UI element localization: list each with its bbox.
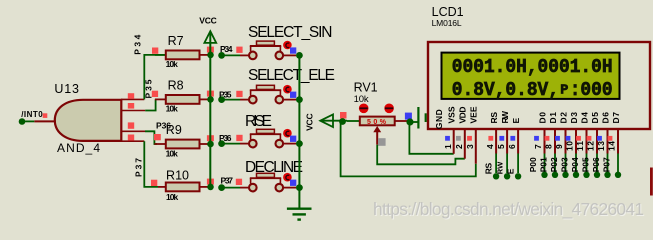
svg-text:P: P [560, 84, 568, 99]
LCD LCD1 frame [428, 42, 650, 129]
resistor R8 [155, 95, 211, 104]
svg-text:10k: 10k [166, 59, 178, 69]
pin marker blue square button1 [290, 47, 296, 53]
wire P35 to button SELECT_ELE [222, 99, 240, 101]
resistor R7 [155, 51, 211, 60]
pin 5 marker blue square [499, 136, 504, 141]
component edge (off-screen, right) [650, 168, 653, 196]
LCD pin 3 stub [475, 130, 477, 164]
svg-text:https://blog.csdn.net/weixin_4: https://blog.csdn.net/weixin_47626041 [373, 199, 644, 219]
LCD pin 13 stub (D6) [604, 130, 610, 178]
pin marker red square RV1 left [340, 112, 347, 119]
svg-text:10k: 10k [166, 104, 178, 114]
wire to /INT0 [21, 120, 34, 122]
pin 13 marker square [597, 136, 602, 141]
pin marker red square R8 left [152, 91, 158, 97]
svg-text:12: 12 [586, 141, 596, 151]
svg-text:E: E [506, 168, 516, 174]
pin marker red square R10 left [151, 180, 157, 186]
pushbutton RISE [240, 129, 296, 148]
junction RV1 right / GND [406, 118, 413, 125]
svg-text:10k: 10k [166, 192, 178, 202]
pin marker red square input 1 [128, 93, 134, 99]
pin 3 marker red square [467, 136, 472, 141]
LCD pin 10 stub (D3) [573, 130, 579, 178]
LCD pin 8 stub (D1) [552, 130, 558, 178]
svg-text:P34: P34 [132, 34, 142, 54]
svg-text:RS: RS [489, 112, 499, 124]
pin 7 marker square [534, 136, 539, 141]
junction rail/button2 [296, 96, 303, 103]
svg-text:P05: P05 [581, 157, 591, 172]
junction VCC rail / R8 [207, 96, 214, 103]
svg-text:3: 3 [465, 144, 475, 149]
svg-text:/INT0: /INT0 [21, 110, 43, 119]
LCD pin 2 stub [464, 130, 466, 159]
svg-text:D1: D1 [548, 112, 558, 124]
LCD pin 5 stub (RW) [504, 130, 510, 180]
svg-text:11: 11 [575, 141, 585, 151]
node P34 wire-end dot [218, 52, 225, 59]
wire GND net to LCD VSS (pin 1) [409, 122, 453, 154]
svg-text:P36: P36 [219, 133, 232, 143]
pin 9 marker square [555, 136, 560, 141]
svg-text:10k: 10k [166, 148, 178, 158]
svg-text:R9: R9 [166, 123, 182, 137]
wire input3 jog to R9 [145, 131, 157, 144]
pin stub U13 input 2 [121, 110, 145, 112]
svg-text:RS: RS [484, 162, 494, 174]
pin 2 marker gray square [456, 136, 461, 141]
power VCC terminal (top) [204, 31, 216, 187]
svg-text:D3: D3 [569, 112, 579, 124]
pin marker red square button2 left [236, 91, 242, 97]
junction VCC rail / R7 [207, 52, 214, 59]
wire ground rail (right of buttons) [298, 55, 300, 207]
svg-text:VCC: VCC [305, 113, 315, 131]
pin 14 marker square [608, 136, 613, 141]
svg-text:P00: P00 [528, 157, 538, 172]
marker gray square RV1 wiper [378, 138, 386, 146]
pin marker red square input 3 [128, 122, 134, 128]
svg-text:50%: 50% [367, 119, 387, 126]
svg-text:RW: RW [500, 110, 510, 123]
svg-text:D5: D5 [590, 112, 600, 124]
svg-text:P06: P06 [591, 157, 601, 172]
svg-text:8: 8 [544, 144, 554, 149]
pin 11 marker square [576, 136, 581, 141]
resistor R10 [158, 183, 211, 192]
LCD pin 1 stub [453, 130, 455, 154]
svg-text::000: :000 [570, 79, 613, 101]
pin marker blue square button3 [290, 136, 296, 142]
junction rail/button4 [296, 184, 303, 191]
svg-text:0001.0H,0001.0H: 0001.0H,0001.0H [452, 56, 613, 78]
pin marker blue square RV1 right [405, 113, 412, 120]
pin marker red square button1 left [236, 47, 242, 53]
pin 8 marker square [545, 136, 550, 141]
svg-text:9: 9 [554, 144, 564, 149]
svg-text:VDD: VDD [458, 107, 468, 124]
svg-text:SELECT_SIN: SELECT_SIN [248, 24, 333, 41]
svg-text:P37: P37 [133, 158, 143, 177]
svg-text:D0: D0 [538, 112, 548, 124]
svg-text:5: 5 [496, 144, 506, 149]
LCD pin 12 stub (D5) [594, 130, 600, 178]
svg-text:0.8V,0.8V,: 0.8V,0.8V, [452, 79, 559, 101]
pin marker blue square button4 [290, 180, 296, 186]
svg-text:RV1: RV1 [354, 81, 378, 95]
svg-text:VEE: VEE [469, 106, 479, 123]
svg-text:P34: P34 [220, 44, 233, 54]
svg-text:RW: RW [496, 161, 505, 174]
svg-text:D4: D4 [580, 112, 590, 124]
pin stub U13 input 4 [121, 140, 144, 142]
pin marker red square /INT0 [43, 113, 48, 118]
svg-text:VSS: VSS [447, 106, 457, 123]
svg-text:6: 6 [507, 144, 517, 149]
power VCC terminal (left-pointing, near RV1) [320, 114, 347, 127]
pin marker blue square button2 [290, 92, 296, 98]
svg-text:P37: P37 [221, 175, 234, 185]
pin 1 marker blue square [445, 136, 450, 141]
wire input2 jog to R8 [145, 99, 155, 110]
LCD pin 14 stub (D7) [615, 130, 621, 178]
resistor R9 [154, 140, 211, 149]
pin stub U13 input 3 [121, 130, 145, 132]
wire P34 to button SELECT_SIN [222, 54, 240, 56]
svg-text:7: 7 [533, 144, 543, 149]
pin marker red square button4 left [236, 179, 242, 185]
ground flag (rotated, at LCD) [418, 107, 425, 129]
wire P37 to button DECLINE [222, 187, 240, 189]
pin marker red square input 4 [128, 135, 134, 141]
LCD screen [442, 53, 620, 99]
svg-text:2: 2 [454, 144, 464, 149]
svg-text:P02: P02 [549, 157, 559, 172]
pushbutton DECLINE [240, 173, 296, 192]
pushbutton SELECT_ELE [240, 85, 296, 104]
svg-text:14: 14 [607, 141, 617, 151]
svg-text:P35: P35 [219, 90, 232, 100]
svg-text:D7: D7 [611, 112, 621, 124]
svg-text:SELECT_ELE: SELECT_ELE [248, 67, 335, 84]
pin marker red square R7 left [152, 48, 158, 54]
pin marker red square on VCC rail row1 [207, 47, 214, 53]
svg-text:P03: P03 [560, 157, 570, 172]
node P35 wire-end dot [218, 96, 225, 103]
pin 10 marker square [566, 136, 571, 141]
pin stub U13 input 1 [121, 98, 144, 100]
wire RV1 wiper to LCD VDD (pin 2) [377, 145, 465, 165]
LCD pin 4 stub (RS) [493, 130, 499, 180]
pushbutton SELECT_SIN [240, 41, 296, 60]
junction RV1 left / VCC [339, 118, 346, 125]
pin marker red square on VCC rail row3 [207, 135, 214, 141]
LCD pin 7 stub (D0) [541, 130, 547, 178]
pin marker red square on VCC rail row2 [207, 91, 214, 97]
junction VCC rail / R9 [207, 141, 214, 148]
svg-text:D6: D6 [601, 112, 611, 124]
pin 12 marker square [587, 136, 592, 141]
junction rail/button1 [296, 52, 303, 59]
svg-text:DECLINE: DECLINE [245, 159, 303, 176]
junction rail/button3 [296, 140, 303, 147]
svg-text:VCC: VCC [199, 15, 217, 25]
svg-text:R8: R8 [168, 78, 184, 92]
svg-text:AND_4: AND_4 [57, 141, 100, 155]
svg-text:RISE: RISE [245, 113, 272, 130]
svg-text:P07: P07 [602, 157, 612, 172]
wire P36 to button RISE [222, 143, 240, 145]
LCD pin 11 stub (D4) [583, 130, 589, 178]
svg-text:10: 10 [565, 141, 575, 151]
LCD pin 6 stub (E) [515, 130, 521, 180]
pin marker red square button3 left [236, 135, 242, 141]
svg-text:U13: U13 [54, 82, 79, 96]
wire VCC net to LCD VEE (pin 3) [341, 122, 476, 177]
svg-text:P04: P04 [570, 157, 580, 172]
pin 4 marker red square [488, 136, 493, 141]
svg-text:LM016L: LM016L [432, 18, 462, 28]
LCD pin 9 stub (D2) [562, 130, 568, 178]
wire output pin of U13 [34, 120, 56, 122]
pin marker red square input 2 [128, 103, 134, 109]
pin 6 marker blue square [510, 136, 515, 141]
wire input4 to R10 [144, 141, 158, 187]
node P36 wire-end dot [218, 140, 225, 147]
svg-text:10k: 10k [354, 94, 369, 105]
svg-text:LCD1: LCD1 [432, 5, 464, 19]
node /INT0 dot [19, 118, 26, 125]
svg-text:GND: GND [434, 109, 444, 129]
svg-text:4: 4 [485, 144, 495, 149]
svg-text:R10: R10 [166, 169, 189, 183]
junction VCC rail / R10 [207, 184, 214, 191]
svg-text:E: E [511, 118, 521, 124]
pin marker red square R9 left [154, 134, 161, 140]
potentiometer RV1 [347, 104, 407, 145]
wire input1 to R7 vertical [144, 55, 166, 100]
svg-text:D2: D2 [559, 112, 569, 124]
pin marker red square on VCC rail row4 [207, 179, 214, 185]
ground [287, 209, 312, 220]
wire RV1 right to ground flag [410, 121, 418, 123]
svg-text:R7: R7 [168, 34, 184, 48]
svg-text:P01: P01 [539, 157, 549, 172]
AND gate U13 [55, 100, 122, 141]
svg-text:13: 13 [596, 141, 606, 151]
node P37 wire-end dot [218, 184, 225, 191]
svg-text:1: 1 [443, 144, 453, 149]
